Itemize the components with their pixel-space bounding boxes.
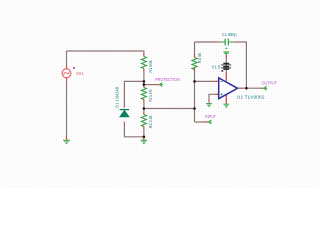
terminal OUTPUT <box>262 80 278 90</box>
wire input node horizontal <box>144 108 195 110</box>
capacitor C1 680p <box>220 32 237 45</box>
wire opamp V- pin to ground <box>225 95 227 104</box>
wire opamp output to OUTPUT terminal <box>238 87 263 89</box>
red pin battery top / supply ground <box>225 55 227 58</box>
red pin VG1 top <box>66 66 68 69</box>
red pin opamp noninverting input <box>215 93 218 95</box>
wire node to diode top <box>124 81 143 107</box>
terminal INPUT <box>205 114 216 124</box>
svg-text:INPUT: INPUT <box>205 114 216 120</box>
wire node to protection terminal <box>144 84 158 86</box>
red pin R1 bottom <box>143 69 145 72</box>
wire VG1 bottom to ground <box>66 78 68 140</box>
red pin diode bottom <box>123 122 125 125</box>
ground below R3 node <box>141 140 148 143</box>
wire R1 bottom to R2 top <box>143 69 145 88</box>
wire feedback top right segment <box>236 42 246 88</box>
node input network junction <box>193 107 196 110</box>
node R3/diode ground junction <box>143 136 146 139</box>
red pin R2 bottom <box>143 99 145 102</box>
red pin R3 top <box>143 112 145 115</box>
red pin opamp output <box>240 87 243 89</box>
diode D1 1N4148 <box>114 87 129 117</box>
terminal PROTECTION <box>155 77 180 87</box>
wire R3 bottom to ground node <box>143 127 145 141</box>
wire top horizontal VG1 to R1 <box>67 51 144 57</box>
svg-text:PROTECTION: PROTECTION <box>155 77 180 83</box>
resistor R4 5k <box>192 52 203 69</box>
wire feedback left vertical (R4 branch) <box>194 42 196 58</box>
red pin diode top <box>123 105 125 107</box>
voltage generator VG1 <box>62 67 84 78</box>
node R2/R3 input junction <box>143 107 146 110</box>
red pin R1 top <box>143 52 145 56</box>
red pin opamp V- <box>225 95 227 103</box>
op-amp U1 TLV9062 <box>219 78 265 101</box>
wire R4 bottom to input corner <box>194 68 196 122</box>
node protection junction <box>143 83 146 86</box>
wire R2 bottom to R3 top <box>143 100 145 115</box>
node output junction <box>245 87 248 90</box>
red pin battery bottom <box>225 72 227 77</box>
red pin R3 bottom <box>143 126 145 129</box>
red pin middle ground <box>143 138 145 141</box>
svg-text:R2 6.67k: R2 6.67k <box>148 89 154 102</box>
wire feedback top left segment <box>195 41 218 43</box>
resistor R3 3.3k <box>141 115 154 129</box>
wire opamp inverting input <box>195 80 219 82</box>
wire opamp V+ pin to battery <box>225 63 227 82</box>
wire to INPUT terminal <box>195 121 208 123</box>
wire opamp noninverting input to ground <box>209 94 218 100</box>
svg-text:R4 5k: R4 5k <box>197 52 203 63</box>
wire battery top to ground above <box>225 55 227 64</box>
svg-text:U1 TLV9062: U1 TLV9062 <box>237 95 265 101</box>
red pin R2 top <box>143 85 145 88</box>
ground at opamp V- <box>223 104 229 107</box>
red pin C1 right <box>234 41 237 43</box>
ground below VG1 <box>63 140 70 143</box>
svg-text:D1 1N4148: D1 1N4148 <box>114 87 120 108</box>
green pin opamp output <box>238 87 240 89</box>
ground at opamp noninverting input <box>206 104 212 107</box>
red pin C1 left <box>218 41 220 43</box>
red pin PROTECTION terminal <box>156 84 159 86</box>
red pin R4 top <box>194 54 196 57</box>
node feedback/inverting input junction <box>193 80 196 83</box>
red pin VG1 ground end <box>66 137 68 140</box>
svg-text:C1 680p: C1 680p <box>222 32 237 38</box>
red pin OUTPUT terminal <box>261 87 264 89</box>
svg-text:R1 50k: R1 50k <box>148 60 154 73</box>
svg-text:V1 5: V1 5 <box>212 64 221 70</box>
wire VG1 top to corner <box>66 51 68 69</box>
red pin INPUT terminal <box>205 121 208 123</box>
red pin VG1 bottom <box>66 78 68 81</box>
resistor R2 6.67k <box>141 88 154 102</box>
svg-text:OUTPUT: OUTPUT <box>262 80 278 86</box>
battery V1 5 <box>212 63 232 71</box>
ground above battery (inverted) <box>224 48 230 55</box>
node R1/diode junction <box>143 80 146 83</box>
red pin opamp V+ <box>225 76 227 80</box>
red pin input ground <box>208 100 210 104</box>
wire diode bottom to node <box>124 124 143 137</box>
red pin opamp inverting input <box>215 80 218 82</box>
red pin R4 bottom <box>194 68 196 71</box>
svg-text:R3 3.3k: R3 3.3k <box>148 115 154 128</box>
resistor R1 50k <box>141 57 154 73</box>
svg-text:VG1: VG1 <box>76 71 84 77</box>
